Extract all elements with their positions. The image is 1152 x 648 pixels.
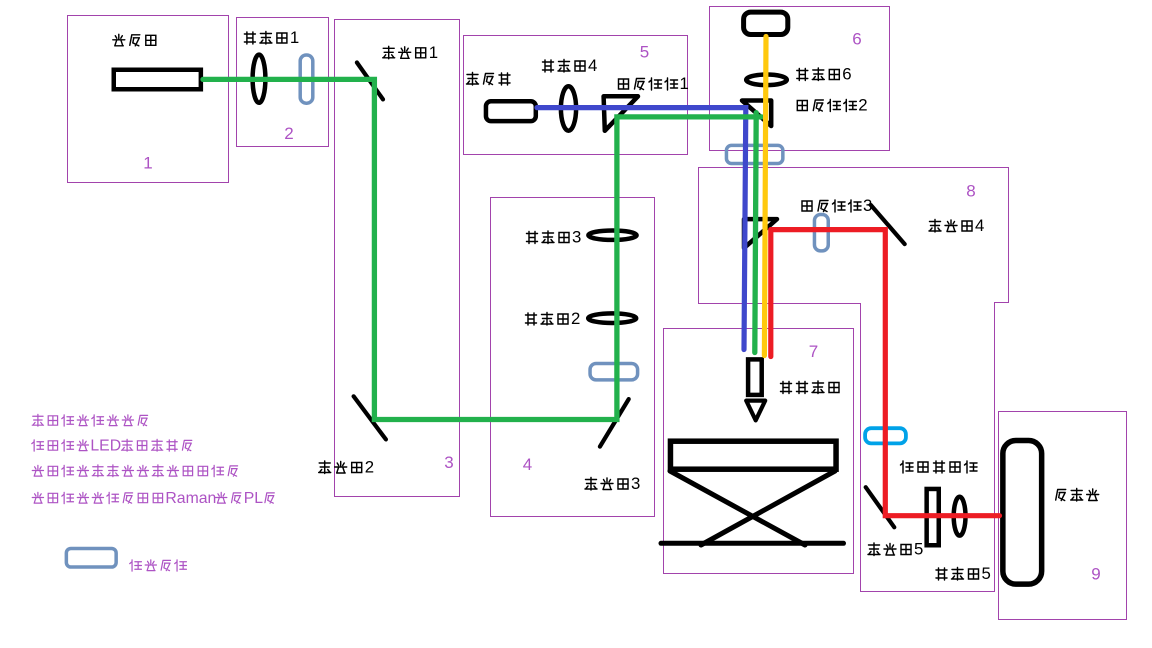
red raman beam vertical from objective [768, 230, 773, 357]
label: convex lens 5 [936, 564, 991, 583]
region box 8 (raman arm, L-shaped) [699, 168, 1009, 592]
label: notch filter [901, 461, 978, 473]
spectrometer body [1003, 441, 1042, 585]
svg-text:2: 2 [858, 96, 867, 115]
camera body (top of box 6) [744, 12, 788, 34]
stage scissor leg B [701, 471, 835, 545]
legend aperture symbol [66, 548, 116, 567]
label: mirror 4 [929, 216, 984, 235]
aperture A1 (in box 2) [300, 55, 313, 103]
red raman beam path (BS3-M4-notch-M5-spectrometer) [771, 230, 1000, 516]
entrance slit plate [927, 489, 939, 545]
region box 1 (laser) [68, 16, 229, 183]
svg-text:2: 2 [571, 309, 580, 328]
label: microscope objective [781, 381, 840, 394]
svg-text:5: 5 [982, 564, 991, 583]
svg-text:1: 1 [429, 43, 438, 62]
label: mirror 5 [868, 540, 923, 559]
beam splitter triangle in box 8 [744, 219, 777, 248]
aperture A2 (in box 4) [590, 363, 638, 379]
svg-text:5: 5 [914, 540, 923, 559]
blue illumination beam (source-BS1-BS2-down) [537, 108, 746, 350]
svg-text:3: 3 [863, 196, 872, 215]
legend line: yellow = reflected image light [32, 465, 237, 477]
svg-text:6: 6 [842, 65, 851, 84]
beam splitter plate 3 (plate symbol) [814, 215, 828, 251]
aperture A3 (below beam splitter 2) [726, 145, 782, 163]
microscope objective barrel [748, 359, 762, 395]
svg-text:3: 3 [631, 474, 640, 493]
microscope objective tip (triangle) [746, 401, 765, 421]
svg-text:4: 4 [975, 216, 984, 235]
legend line: red = Raman or PL light [32, 490, 274, 507]
svg-text:8: 8 [966, 182, 975, 201]
label: beam splitter 2 [797, 96, 867, 115]
svg-text:1: 1 [680, 74, 689, 93]
svg-text:1: 1 [290, 28, 299, 47]
label: convex lens 2 [526, 309, 581, 328]
region box 4 (lenses 2-3) [491, 198, 655, 517]
label: convex lens 4 [543, 56, 598, 75]
mirror M2 (reflector 2) [354, 396, 386, 439]
label: beam splitter 3 [802, 196, 872, 215]
legend line: green = incident laser [32, 414, 147, 426]
mirror M4 (reflector 4) [871, 205, 905, 244]
label: spectrometer [1056, 489, 1099, 502]
svg-text:9: 9 [1091, 565, 1100, 584]
region box 3 (mirrors 1-2) [335, 20, 460, 497]
stage scissor leg A [670, 471, 805, 545]
region box 7 (sample stage) [664, 329, 854, 574]
svg-text:4: 4 [523, 455, 532, 474]
lens L4 (convex lens 4) [561, 86, 576, 130]
region box 9 (spectrometer) [999, 412, 1127, 620]
label: convex lens 3 [527, 228, 582, 247]
stage base line [661, 541, 844, 546]
notch filter (cyan) [865, 428, 906, 443]
svg-text:3: 3 [572, 228, 581, 247]
legend label: aperture symbol [130, 560, 187, 571]
mirror M3 (reflector 3) [600, 399, 629, 447]
svg-text:7: 7 [809, 342, 818, 361]
label: white source [467, 73, 511, 86]
label: laser [113, 34, 156, 46]
lens L5 (convex lens 5) [954, 497, 966, 536]
region box 2 (lens1) [237, 18, 329, 147]
lens L6 (convex lens 6) [746, 75, 787, 86]
svg-text:4: 4 [588, 56, 597, 75]
green beam down to objective [755, 113, 756, 353]
mirror M5 (reflector 5) [866, 487, 895, 527]
svg-text:3: 3 [444, 453, 453, 472]
label: convex lens 6 [797, 65, 852, 84]
svg-text:2: 2 [365, 458, 374, 477]
svg-text:Raman: Raman [165, 490, 216, 507]
lens L3 (convex lens 3) [588, 231, 636, 240]
lens L2 (convex lens 2) [588, 313, 636, 323]
label: mirror 3 [585, 474, 640, 493]
legend line: blue = LED white illumination [32, 437, 192, 454]
svg-text:5: 5 [640, 43, 649, 62]
svg-text:2: 2 [284, 124, 293, 143]
yellow image beam (camera down to objective) [764, 37, 766, 356]
label: beam splitter 1 [619, 74, 689, 93]
mirror M1 (reflector 1) [357, 63, 383, 100]
green laser beam path (laser-M1-M2-M3-BS1) [203, 79, 762, 419]
white light source body [486, 101, 536, 121]
sample stage top plate [670, 441, 836, 469]
lens L1 (convex lens 1) [253, 55, 266, 103]
region box 6 (camera arm) [710, 7, 890, 151]
svg-text:1: 1 [143, 154, 152, 173]
region box 5 (white source) [464, 36, 688, 155]
beam splitter plate 2 (triangle) [742, 101, 771, 127]
svg-text:PL: PL [244, 490, 264, 507]
svg-text:LED: LED [90, 437, 121, 454]
label: mirror 1 [383, 43, 438, 62]
beam splitter plate 1 (triangle) [604, 96, 638, 131]
svg-text:6: 6 [852, 30, 861, 49]
label: mirror 2 [319, 458, 374, 477]
label: convex lens 1 [244, 28, 299, 47]
laser body [114, 70, 201, 90]
